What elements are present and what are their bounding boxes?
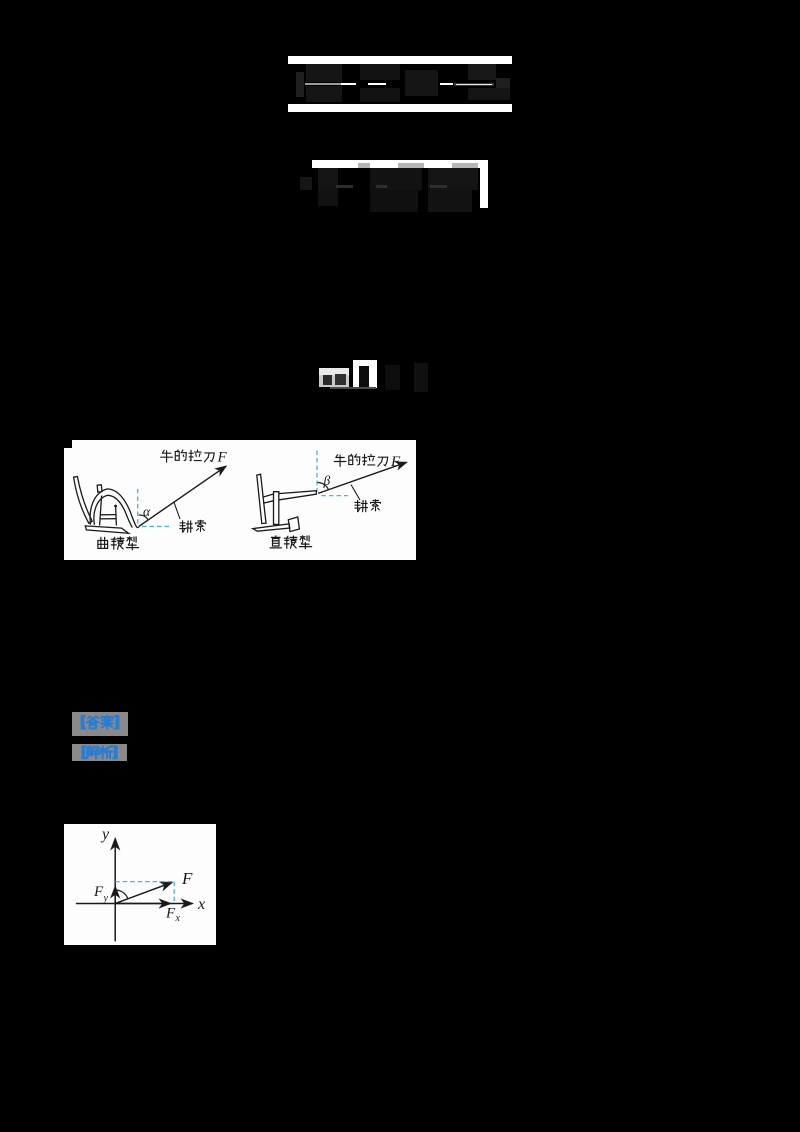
svg-text:F: F <box>390 454 401 470</box>
svg-text:F: F <box>165 905 176 921</box>
svg-text:y: y <box>103 893 109 904</box>
svg-text:x: x <box>197 896 205 913</box>
svg-text:y: y <box>100 826 110 843</box>
svg-text:F: F <box>181 869 193 888</box>
svg-text:F: F <box>93 884 104 900</box>
svg-text:x: x <box>175 913 181 924</box>
svg-text:F: F <box>217 449 228 465</box>
